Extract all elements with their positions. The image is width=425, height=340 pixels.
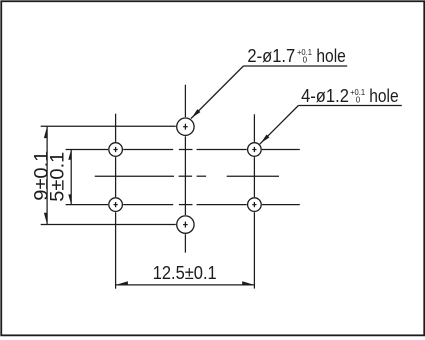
svg-text:hole: hole bbox=[316, 46, 345, 66]
wire: upper row centerline, centre to hole H2 bbox=[197, 149, 247, 151]
wire: right column centerline, upper segment bbox=[253, 114, 255, 142]
leader underline for 2-ø1.7 hole callout bbox=[243, 65, 347, 67]
wire: lower row centerline, centre to hole H4 bbox=[197, 204, 247, 206]
leader line (diagonal) for 4-ø1.2 hole callout bbox=[260, 106, 299, 145]
wire: right column centerline, middle segment bbox=[253, 157, 255, 197]
svg-text:0: 0 bbox=[303, 55, 308, 64]
svg-text:4-ø1.2: 4-ø1.2 bbox=[301, 86, 349, 106]
hole H1: upper-left 1.2 dia hole outline bbox=[109, 143, 123, 157]
dimension 12.5±0.1: dimension line bbox=[116, 284, 255, 286]
wire: lower row centerline, left of hole H3 bbox=[66, 204, 108, 206]
hole H4: lower-right 1.2 dia hole outline bbox=[248, 198, 262, 212]
svg-text:hole: hole bbox=[369, 86, 398, 106]
dimension 5±0.1: upper arrowhead bbox=[68, 150, 71, 160]
center mark of hole H2 bbox=[252, 147, 256, 152]
dimension 9±0.1: lower arrowhead bbox=[44, 213, 47, 225]
wire: left column centerline, middle segment bbox=[115, 157, 117, 197]
center mark of hole B2 bbox=[183, 222, 188, 228]
svg-text:5±0.1: 5±0.1 bbox=[48, 152, 69, 202]
hole B2: bottom centre 1.7 dia hole outline bbox=[177, 216, 194, 233]
leader arrowhead pointing at hole H2 bbox=[261, 134, 270, 143]
wire: upper row centerline, short dash at centre column bbox=[179, 149, 193, 151]
wire: middle dashed centerline, long left dash bbox=[95, 175, 174, 177]
wire: centre column centerline, upper segment bbox=[184, 85, 186, 117]
leader line (diagonal) for 2-ø1.7 hole callout bbox=[191, 66, 243, 119]
dimension 5±0.1: dimension line bbox=[70, 150, 72, 205]
center mark of hole H1 bbox=[114, 147, 118, 152]
center mark of hole H4 bbox=[252, 202, 256, 207]
wire: lower row centerline, short dash at centre column bbox=[179, 204, 193, 206]
hole B1: top centre 1.7 dia hole outline bbox=[177, 118, 194, 135]
dimension 9±0.1: upper arrowhead bbox=[44, 126, 47, 138]
dimension 9±0.1: dimension line bbox=[46, 126, 48, 224]
leader arrowhead pointing at hole B1 bbox=[192, 109, 201, 118]
hole H2: upper-right 1.2 dia hole outline bbox=[248, 143, 262, 157]
wire: middle dashed centerline, short dash 2 bbox=[197, 175, 207, 177]
wire: upper row centerline, right of hole H2 bbox=[262, 149, 300, 151]
svg-text:0: 0 bbox=[356, 95, 361, 104]
wire: right column centerline, lower segment (12.5 extension line) bbox=[253, 212, 255, 288]
wire: lower row centerline, right of hole H4 bbox=[262, 204, 300, 206]
hole H3: lower-left 1.2 dia hole outline bbox=[109, 198, 123, 212]
wire: centre column centerline, middle segment bbox=[184, 136, 186, 215]
dimension 5±0.1: lower arrowhead bbox=[68, 194, 71, 204]
dimension 9±0.1: bottom extension line bbox=[41, 224, 176, 226]
wire: lower row centerline, H3 to centre dash bbox=[123, 204, 173, 206]
wire: middle dashed centerline, long right dash bbox=[227, 175, 279, 177]
center mark of hole H3 bbox=[114, 202, 118, 207]
wire: centre column centerline, lower segment bbox=[184, 234, 186, 252]
svg-text:12.5±0.1: 12.5±0.1 bbox=[153, 263, 217, 283]
wire: middle dashed centerline, short dash 1 bbox=[179, 175, 193, 177]
dimension 9±0.1: top extension line bbox=[41, 125, 176, 127]
svg-text:2-ø1.7: 2-ø1.7 bbox=[247, 46, 295, 66]
wire: upper row centerline, left of hole H1 bbox=[66, 149, 108, 151]
wire: upper row centerline, H1 to centre dash bbox=[123, 149, 173, 151]
leader underline for 4-ø1.2 hole callout bbox=[298, 105, 401, 107]
dimension 12.5±0.1: left arrowhead bbox=[116, 281, 128, 285]
center mark of hole B1 bbox=[183, 124, 188, 130]
wire: left column centerline, lower segment (12.5 extension line) bbox=[115, 212, 117, 289]
wire: left column centerline, upper segment bbox=[115, 114, 117, 142]
dimension 12.5±0.1: right arrowhead bbox=[242, 281, 254, 285]
